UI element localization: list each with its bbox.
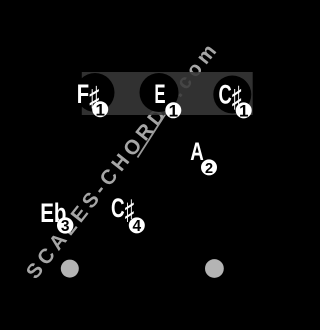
svg-text:1: 1 [169,101,178,120]
finger circle 1 (E) [165,102,181,118]
svg-text:1: 1 [95,100,104,119]
fret marker dot left [61,260,79,278]
svg-text:2: 2 [205,161,213,177]
finger circle 2 (A) [201,159,217,175]
fret marker dot right [205,259,224,278]
svg-text:3: 3 [61,218,70,235]
svg-text:1: 1 [239,102,248,121]
svg-text:A: A [190,137,204,165]
finger circle 3 (Eb) [57,217,73,233]
watermark underline [138,110,169,158]
fret bar [82,72,253,115]
note dot F# (string, black circle) [76,73,115,112]
note dot E [140,73,179,112]
finger circle 4 (C#) [129,217,145,233]
svg-text:E: E [154,79,165,109]
note dot C# [213,76,251,114]
svg-text:C♯: C♯ [111,193,134,225]
svg-text:4: 4 [132,218,141,235]
finger circle 1 (F#) [92,101,108,117]
finger circle 1 (C#) [236,102,252,118]
